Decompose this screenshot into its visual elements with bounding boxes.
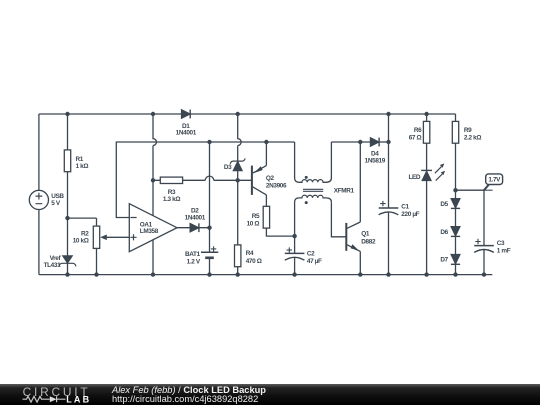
svg-text:BAT1: BAT1 bbox=[185, 251, 201, 258]
wire battery vertical (D2 cathode node down through BAT1) bbox=[209, 142, 211, 275]
svg-text:2N3906: 2N3906 bbox=[266, 183, 287, 190]
junction R1 bottom / R2 top node bbox=[65, 216, 69, 220]
transistor Q1 D882 (NPN) bbox=[346, 222, 376, 251]
svg-text:R1: R1 bbox=[76, 156, 84, 163]
junction R6 top on rectified rail bbox=[424, 112, 428, 116]
svg-text:1N4001: 1N4001 bbox=[176, 130, 197, 137]
svg-text:R9: R9 bbox=[464, 127, 472, 134]
svg-text:1.3 kΩ: 1.3 kΩ bbox=[163, 196, 180, 203]
resistor R5 bbox=[247, 206, 270, 228]
resistor R3 bbox=[160, 177, 182, 203]
zener diode D3 bbox=[224, 158, 245, 171]
wire R5 bottom lead to C2 node bbox=[266, 228, 294, 236]
wire output node to 1.7V flag and C3 bbox=[456, 190, 485, 274]
wire op-amp V+ vertical with hop over feedback wire bbox=[153, 114, 156, 218]
capacitor C3 1mF bbox=[474, 239, 511, 255]
wire Q2 collector to R5 bbox=[265, 195, 267, 206]
LED bbox=[408, 163, 445, 181]
svg-text:67 Ω: 67 Ω bbox=[409, 134, 422, 141]
svg-text:C2: C2 bbox=[307, 250, 315, 257]
wire R6/LED vertical bbox=[426, 114, 428, 275]
credit line 2 bbox=[112, 394, 258, 404]
svg-text:1N5819: 1N5819 bbox=[365, 157, 386, 164]
capacitor C2 47uF bbox=[285, 247, 322, 264]
junction R5 / C2 / transformer secondary bbox=[292, 234, 296, 238]
svg-text:D3: D3 bbox=[224, 164, 232, 171]
diode D5 bbox=[440, 199, 460, 209]
wire switching node: transformer top right to D4 anode bbox=[331, 141, 370, 143]
svg-text:LAB: LAB bbox=[66, 395, 91, 405]
junction battery net / feedback wire bbox=[207, 140, 211, 144]
transformer XFMR1 bbox=[295, 142, 355, 236]
wire Q1 collector vertical bbox=[359, 142, 361, 222]
wire op-amp output to D2 and battery node bbox=[177, 227, 210, 229]
wire top rail right segment bbox=[190, 113, 455, 115]
wire D4 cathode to C1 node bbox=[379, 141, 388, 143]
svg-text:D7: D7 bbox=[440, 257, 448, 264]
junction C3 bottom on ground rail bbox=[482, 272, 486, 276]
svg-text:LM358: LM358 bbox=[140, 228, 159, 235]
svg-text:47 µF: 47 µF bbox=[307, 258, 322, 265]
wire R9/D5/D6/D7 vertical bbox=[455, 114, 457, 275]
schottky diode D4 1N5819 bbox=[365, 138, 386, 165]
resistor R9 bbox=[452, 121, 481, 143]
credit line 1 bbox=[112, 385, 266, 395]
wire left vertical (USB branch) bbox=[38, 114, 40, 275]
wire R1/TL431 vertical bbox=[67, 114, 69, 275]
junction R1 top on +5V rail bbox=[65, 112, 69, 116]
junction BAT1 minus on ground rail bbox=[207, 272, 211, 276]
battery BAT1 1.2V bbox=[185, 246, 218, 265]
wire D3/R4 vertical with hop over feedback wire bbox=[238, 114, 241, 275]
junction D3 branch on rectified rail bbox=[236, 112, 240, 116]
diode D7 bbox=[440, 254, 460, 264]
footer bar bbox=[0, 384, 540, 405]
wire top rail left segment bbox=[39, 113, 182, 115]
svg-text:D6: D6 bbox=[440, 229, 448, 236]
junction TL431 on ground rail bbox=[65, 272, 69, 276]
wire R2 vertical bbox=[96, 218, 98, 275]
junction op-amp V- on ground rail bbox=[151, 272, 155, 276]
node flag 1.7V bbox=[484, 174, 503, 190]
svg-text:LED: LED bbox=[408, 174, 420, 181]
wire Q1 emitter vertical to ground bbox=[359, 251, 361, 274]
svg-text:Vref: Vref bbox=[50, 255, 62, 262]
diode D1 1N4001 bbox=[176, 110, 197, 137]
capacitor C1 220uF bbox=[379, 201, 420, 218]
op-amp OA1 LM358 bbox=[129, 204, 177, 252]
junction Q1 collector on switching net bbox=[358, 140, 362, 144]
diode D2 1N4001 bbox=[185, 208, 206, 232]
svg-text:1.7V: 1.7V bbox=[488, 177, 501, 184]
junction D7 bottom on ground rail bbox=[453, 272, 457, 276]
shunt reference Vref TL431 bbox=[44, 255, 76, 269]
svg-text:220 µF: 220 µF bbox=[401, 211, 419, 218]
wire bottom rail bbox=[39, 274, 492, 276]
wire C2 vertical (transformer primary left lead down) bbox=[294, 236, 296, 275]
junction R2 bottom on ground rail bbox=[94, 272, 98, 276]
wire op-amp V- vertical to ground rail bbox=[152, 237, 154, 275]
svg-text:2.2 kΩ: 2.2 kΩ bbox=[464, 134, 481, 141]
svg-text:10 Ω: 10 Ω bbox=[247, 220, 260, 227]
svg-text:D882: D882 bbox=[361, 239, 376, 246]
wire C1 vertical from top rail through D4 node bbox=[388, 114, 390, 275]
wire R3 branch: left lead, hop over battery vertical, to Q2 base bbox=[153, 176, 252, 180]
svg-text:XFMR1: XFMR1 bbox=[334, 188, 355, 195]
transistor Q2 2N3906 (PNP) bbox=[252, 166, 287, 195]
junction R9 bottom / D5 / 1.7V node bbox=[453, 188, 457, 192]
junction R4 bottom on ground rail bbox=[236, 272, 240, 276]
CircuitLab logo bbox=[0, 384, 120, 405]
svg-text:D5: D5 bbox=[440, 201, 448, 208]
diode D6 bbox=[440, 227, 460, 237]
svg-text:Q1: Q1 bbox=[361, 231, 370, 238]
wire feedback: op-amp inverting input up and across to battery net bbox=[116, 142, 294, 218]
svg-text:5 V: 5 V bbox=[51, 200, 61, 207]
voltage source USB 5V bbox=[29, 190, 64, 209]
junction Q2 emitter on battery net bbox=[264, 140, 268, 144]
junction Q1 emitter on ground rail bbox=[358, 272, 362, 276]
svg-text:10 kΩ: 10 kΩ bbox=[73, 237, 89, 244]
junction D4/C1 branch on rectified rail bbox=[386, 112, 390, 116]
svg-text:1 mF: 1 mF bbox=[497, 248, 511, 255]
junction D3 anode / R4 / Q2 base bbox=[236, 178, 240, 182]
svg-text:R5: R5 bbox=[252, 213, 260, 220]
svg-text:R3: R3 bbox=[168, 189, 176, 196]
wire R2 wiper to op-amp noninverting input bbox=[105, 236, 130, 238]
wire Q2 emitter vertical from feedback net bbox=[265, 142, 267, 166]
wire node A horizontal to R2 bbox=[68, 217, 97, 219]
resistor R6 bbox=[409, 121, 430, 143]
junction LED bottom on ground rail bbox=[424, 272, 428, 276]
svg-text:1N4001: 1N4001 bbox=[185, 214, 206, 221]
svg-text:1.2 V: 1.2 V bbox=[187, 258, 201, 265]
svg-text:C3: C3 bbox=[497, 240, 505, 247]
svg-text:Q2: Q2 bbox=[266, 175, 275, 182]
svg-text:C1: C1 bbox=[401, 203, 409, 210]
svg-text:R2: R2 bbox=[81, 230, 89, 237]
svg-text:R6: R6 bbox=[414, 127, 422, 134]
potentiometer R2 bbox=[73, 226, 107, 248]
junction R3 left / op-amp V+ bbox=[151, 178, 155, 182]
svg-text:TL431: TL431 bbox=[44, 262, 62, 269]
wire transformer secondary right lead to Q1 base bbox=[331, 202, 346, 237]
junction C2 bottom on ground rail bbox=[292, 272, 296, 276]
svg-text:R4: R4 bbox=[246, 250, 254, 257]
svg-text:470 Ω: 470 Ω bbox=[246, 258, 262, 265]
junction D2 cathode / BAT1 plus bbox=[207, 226, 211, 230]
junction op-amp supply on +5V rail bbox=[151, 112, 155, 116]
junction C1 bottom on ground rail bbox=[386, 272, 390, 276]
junction D4 cathode / C1 top bbox=[386, 140, 390, 144]
resistor R1 bbox=[64, 150, 88, 172]
svg-text:1 kΩ: 1 kΩ bbox=[76, 163, 89, 170]
resistor R4 bbox=[235, 245, 262, 267]
